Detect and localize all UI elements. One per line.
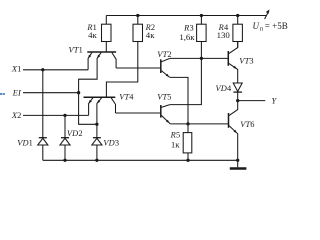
resistor R1 4k xyxy=(86,16,111,52)
label U_P = +5V xyxy=(253,21,288,33)
wire: VT2 collector to common collector node xyxy=(170,57,229,59)
diode VD4 xyxy=(215,83,242,101)
transistor VT5 xyxy=(157,92,171,124)
svg-text:VT3: VT3 xyxy=(239,57,253,66)
node: X1 / VD1 junction xyxy=(41,68,44,71)
svg-text:1,6к: 1,6к xyxy=(179,32,195,42)
svg-text:R5: R5 xyxy=(170,130,181,139)
node: rail junction above R4 xyxy=(236,14,239,17)
transistor VT3 xyxy=(228,42,253,84)
transistor VT2 xyxy=(157,50,171,77)
wire: VT4 collector to VT5 base xyxy=(116,112,161,114)
ground xyxy=(230,160,247,168)
terminal arrow of power rail xyxy=(265,9,270,19)
node: R5 ground junction xyxy=(186,159,189,162)
svg-text:VT6: VT6 xyxy=(240,120,254,129)
node: output Y node xyxy=(236,99,239,102)
transistor VT6 xyxy=(229,101,255,161)
svg-text:4к: 4к xyxy=(146,30,155,40)
wire: emitter node to VT6 base xyxy=(170,123,228,125)
node: VD2 ground junction xyxy=(63,159,66,162)
wire: ground rail xyxy=(43,159,238,161)
diode VD3 xyxy=(92,124,119,160)
svg-text:X1: X1 xyxy=(11,64,22,73)
resistor R4 130 xyxy=(217,16,243,48)
svg-text:VD3: VD3 xyxy=(103,138,119,147)
svg-text:EI: EI xyxy=(12,89,22,98)
node: rail junction above R3 xyxy=(200,14,203,17)
svg-text:VT5: VT5 xyxy=(157,92,171,101)
wire: +5V power rail xyxy=(106,15,266,17)
svg-text:Y: Y xyxy=(272,97,278,106)
node: VD3 ground junction xyxy=(95,159,98,162)
svg-text:130: 130 xyxy=(217,30,231,40)
node: EI junction xyxy=(77,91,80,94)
node: rail junction above R2 xyxy=(136,14,139,17)
transistor VT1 (multi-emitter) xyxy=(69,46,117,125)
svg-text:VT2: VT2 xyxy=(157,50,171,59)
node: emitter node / R5 junction xyxy=(186,122,189,125)
resistor R5 1k xyxy=(170,124,192,160)
decorative blue mark (scan artifact) xyxy=(0,93,5,95)
node: common collector node (R3/VT2/VT5/VT3 base) xyxy=(200,57,203,60)
svg-text:1к: 1к xyxy=(171,140,180,150)
svg-text:VD2: VD2 xyxy=(67,129,83,138)
svg-text:VT1: VT1 xyxy=(69,46,83,55)
resistor R3 1.6k xyxy=(179,16,206,59)
svg-text:U: U xyxy=(253,21,260,31)
svg-text:X2: X2 xyxy=(11,111,22,120)
svg-text:VD1: VD1 xyxy=(17,138,33,147)
svg-text:VD4: VD4 xyxy=(215,84,231,93)
svg-text:п: п xyxy=(260,26,264,33)
wire: output Y xyxy=(238,100,266,102)
svg-text:= +5В: = +5В xyxy=(265,21,288,31)
svg-text:4к: 4к xyxy=(88,30,97,40)
input EI xyxy=(12,89,79,98)
svg-text:VT4: VT4 xyxy=(119,92,134,101)
wire: VT1 collector to VT2 base xyxy=(116,67,161,69)
wire: VT2 emitter to emitter node xyxy=(170,77,188,124)
node: VT6 emitter ground junction xyxy=(236,159,239,162)
node: EI wire / VD3 / VT4 emitter junction xyxy=(95,123,98,126)
wire: collector node down to VT5 collector xyxy=(170,58,202,104)
diode VD1 xyxy=(17,70,48,161)
input X1 xyxy=(11,64,88,73)
resistor R2 4k xyxy=(133,16,155,42)
diode VD2 xyxy=(60,115,83,160)
transistor VT4 (multi-emitter) xyxy=(84,42,138,125)
input X2 xyxy=(11,111,89,120)
node: X2 / VD2 junction xyxy=(63,114,66,117)
